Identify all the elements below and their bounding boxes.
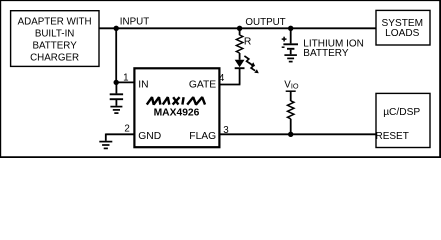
svg-text:BUILT-IN: BUILT-IN — [35, 28, 75, 39]
svg-text:FLAG: FLAG — [189, 131, 216, 142]
svg-text:2: 2 — [124, 123, 129, 134]
svg-text:BATTERY: BATTERY — [32, 40, 77, 51]
svg-text:ADAPTER WITH: ADAPTER WITH — [18, 16, 92, 27]
svg-text:MAX4926: MAX4926 — [154, 108, 200, 119]
svg-text:RESET: RESET — [376, 131, 409, 142]
svg-text:IN: IN — [138, 80, 148, 91]
svg-text:GATE: GATE — [189, 80, 216, 91]
svg-text:3: 3 — [223, 125, 229, 136]
svg-text:VIO: VIO — [284, 80, 299, 91]
svg-text:R: R — [244, 37, 251, 48]
svg-text:BATTERY: BATTERY — [303, 48, 349, 59]
svg-text:OUTPUT: OUTPUT — [245, 17, 285, 28]
svg-text:INPUT: INPUT — [120, 17, 149, 28]
svg-text:µC/DSP: µC/DSP — [383, 107, 420, 118]
svg-text:4: 4 — [219, 73, 225, 84]
svg-text:1: 1 — [123, 73, 128, 84]
svg-text:CHARGER: CHARGER — [30, 52, 79, 63]
svg-text:GND: GND — [138, 131, 161, 142]
svg-text:LOADS: LOADS — [385, 28, 419, 39]
